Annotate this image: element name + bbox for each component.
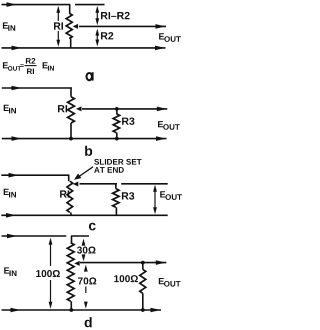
potentiometer R1 (circuit b) (70, 87, 72, 96)
tap wiper arrow (circuit d) (74, 261, 80, 266)
potentiometer R1 (circuit a) (69, 5, 71, 14)
dimension arrow R1 total (circuit a) (57, 11, 59, 21)
resistor 100 ohm (right, circuit d) (142, 263, 144, 270)
label R3 (circuit c) (122, 192, 134, 199)
equation Eout = R2/R1 Ein (3, 62, 8, 68)
junction: 100 ohm top to tap line (circuit d) (141, 261, 145, 265)
wire: circuit c bottom rail (1, 214, 167, 216)
node E_IN (circuit c) (4, 189, 9, 195)
junction: R3 top to wiper line (circuit b) (115, 107, 119, 111)
resistor R3 (circuit c) (115, 184, 117, 189)
wire: circuit b bottom rail (2, 138, 167, 140)
annotation SLIDER SET AT END (94, 159, 141, 165)
sub-figure label c (89, 223, 96, 231)
potentiometer 30/70 ohm (circuit d) (71, 236, 73, 243)
node E_OUT (circuit b) (158, 121, 163, 127)
dimension arrow 70 ohm (circuit d) (84, 265, 88, 272)
wiper arrow of R1 (circuit b) (76, 106, 82, 111)
wire: line segment R3 to E_OUT (circuit c) (121, 183, 168, 185)
label R1-R2 (101, 12, 130, 19)
node E_IN (circuit a) (3, 22, 8, 28)
label R2 (101, 32, 113, 39)
wire: circuit a bottom rail (2, 47, 166, 49)
sub-figure label a (87, 73, 92, 80)
annotation arrow to slider (79, 167, 93, 177)
node E_OUT (circuit c) (160, 191, 165, 197)
label 70 ohm (78, 277, 96, 284)
label R3 (circuit b) (122, 118, 134, 125)
wiper arrow of R1 (circuit a) (73, 24, 79, 29)
wire: tap line to E_OUT (circuit d) (80, 262, 166, 264)
label R1 (circuit c) (60, 190, 69, 197)
label 30 ohm (77, 247, 96, 254)
label R1 (circuit a) (54, 22, 63, 29)
wire: circuit d top rail (2, 235, 67, 237)
node E_IN (circuit d) (4, 267, 9, 273)
node E_OUT (circuit a) (159, 33, 164, 39)
dimension arrow Eout (circuit c) (154, 190, 156, 211)
node E_IN (circuit b) (4, 105, 9, 111)
wire: wiper line to E_OUT (circuit b) (82, 108, 167, 110)
label R1 (circuit b) (58, 105, 67, 112)
junction: R3 bottom to rail (circuit b) (115, 137, 119, 141)
wiper arrow at top of R1 (circuit c) (73, 182, 79, 187)
junction: 100 ohm bottom to rail (circuit d) (141, 308, 145, 312)
wire: circuit b top rail (2, 87, 72, 89)
wire: wiper line segment to R3 (circuit c) (80, 183, 118, 185)
dimension arrow R2 (circuit a) (96, 34, 98, 42)
wire: circuit c top rail (1, 174, 69, 176)
junction: potentiometer bottom to rail (circuit d) (69, 308, 73, 312)
wire: wiper line to E_OUT (circuit a) (79, 25, 166, 27)
resistor R3 (circuit b) (116, 109, 118, 114)
sub-figure label d (85, 317, 92, 327)
dimension arrow R1-R2 (circuit a) (96, 11, 98, 21)
dimension arrow 30 ohm (circuit d) (82, 239, 86, 246)
dimension arrow 100 ohm total (circuit d) (50, 244, 52, 267)
node E_OUT (circuit d) (159, 278, 164, 284)
sub-figure label b (85, 146, 92, 156)
potentiometer R1, slider at end (circuit c) (68, 175, 70, 182)
junction: R1 bottom to rail (circuit b) (69, 137, 73, 141)
label 100 ohm (right, circuit d) (114, 275, 138, 282)
wire: circuit d bottom rail (2, 309, 162, 311)
wire: circuit a top rail (2, 4, 71, 6)
label 100 ohm (left, circuit d) (36, 270, 60, 277)
